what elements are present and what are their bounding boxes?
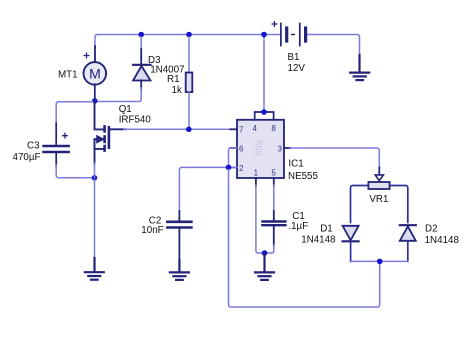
wire: pin 6 left and down to pin2 node [229, 148, 238, 166]
node: D1/D2 bottom junction [377, 259, 383, 265]
svg-text:M: M [89, 66, 101, 82]
wire: top rail from motor to battery [95, 35, 281, 48]
svg-text:555: 555 [253, 140, 264, 156]
node: rail-R1 junction [186, 32, 192, 38]
capacitor C3 (electrolytic) [44, 123, 69, 167]
svg-text:1N4148: 1N4148 [425, 235, 460, 246]
svg-text:.1µF: .1µF [288, 221, 308, 232]
svg-text:B1: B1 [288, 52, 300, 63]
wire: C3 bottom to source node [56, 165, 92, 178]
svg-text:2: 2 [239, 164, 244, 173]
svg-text:D2: D2 [425, 223, 438, 234]
wire: battery to right corner down to ground lead [306, 35, 360, 58]
svg-text:4: 4 [252, 124, 257, 133]
IC pin stubs [231, 129, 291, 167]
node: rail-riser junction [261, 32, 267, 38]
node: source/C3/ground junction [92, 175, 98, 181]
svg-text:D1: D1 [320, 223, 333, 234]
node: pin1/C1/ground junction [262, 250, 268, 256]
svg-text:12V: 12V [288, 63, 306, 74]
capacitor C1 [262, 178, 285, 253]
svg-text:VR1: VR1 [369, 194, 388, 205]
wire: motor bottom lead [94, 84, 96, 101]
node: pins 4/8 junction [261, 109, 267, 115]
ground (under C2) [170, 260, 189, 280]
capacitor C2 [167, 211, 191, 262]
wire: node down to ground [94, 180, 96, 259]
svg-text:R1: R1 [167, 74, 180, 85]
diode D3 [133, 37, 151, 90]
svg-text:10nF: 10nF [141, 225, 163, 236]
svg-text:3: 3 [278, 145, 283, 154]
diode D2 [400, 225, 416, 261]
diode D1 [343, 226, 359, 262]
svg-text:6: 6 [239, 144, 244, 153]
potentiometer VR1 [351, 175, 408, 223]
svg-text:1: 1 [254, 169, 259, 178]
ground (under C1/pin1) [255, 254, 274, 280]
svg-text:NE555: NE555 [288, 171, 319, 182]
svg-text:5: 5 [271, 169, 276, 178]
svg-text:7: 7 [239, 125, 244, 134]
svg-text:8: 8 [271, 124, 276, 133]
svg-text:470µF: 470µF [13, 152, 41, 163]
ground (battery negative) [350, 55, 369, 80]
motor MT1 [84, 53, 107, 85]
wire: pin 3 right and down to VR1 wiper [290, 148, 379, 169]
svg-text:IRF540: IRF540 [119, 114, 152, 125]
wire: gate to IC pin 7 [124, 128, 237, 130]
wire: D1 to D2 bottom connector [351, 260, 408, 262]
wire: pin 1 down to ground node [255, 178, 257, 186]
op IC1 NE555 body [237, 112, 284, 178]
resistor R1 [186, 37, 193, 129]
svg-text:MT1: MT1 [58, 69, 78, 80]
transistor Q1 IRF540 (N-MOSFET) [95, 101, 127, 178]
svg-text:1k: 1k [172, 85, 182, 96]
node: rail-D3 junction [138, 32, 144, 38]
node: R1/gate junction [186, 127, 192, 133]
battery B1 [272, 22, 305, 46]
wire: riser from rail down to IC pins 4/8 [263, 35, 265, 113]
wire: pin 2 left to C2 [179, 167, 237, 212]
wire: pin2 node down and right to D1/D2 node [229, 170, 380, 308]
wire: D3 anode down and left to motor node [97, 88, 141, 102]
svg-text:C3: C3 [27, 140, 40, 151]
ground (main, under Q1 source) [85, 258, 104, 280]
node: pin2/pin6 junction [226, 165, 232, 171]
svg-text:IC1: IC1 [288, 159, 303, 170]
svg-text:1N4148: 1N4148 [301, 234, 336, 245]
wire: node left and down to C3 [56, 102, 93, 125]
node: motor/drain/D3 junction [92, 98, 98, 104]
